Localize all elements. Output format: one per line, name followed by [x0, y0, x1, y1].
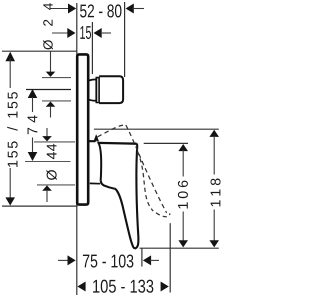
dimension 105-133 arrow left: [77, 282, 85, 292]
dimension text O 44 (rotated): [46, 144, 57, 180]
dimension 52-80 line left: [50, 8, 69, 10]
dimension 75-103 extension right: [141, 248, 143, 266]
handle collar bottom step: [90, 182, 100, 184]
dimension 118 arrow down: [213, 210, 215, 242]
dimension 106 arrow down: [182, 212, 184, 242]
dimension 74 arrow down: [32, 138, 34, 154]
dimension text 118 (rotated): [210, 179, 220, 207]
handle hub front face: [98, 142, 101, 180]
dimension Ø44 arrow down: [42, 136, 52, 141]
dashed lever inner edge: [138, 152, 154, 212]
extension line (106): [144, 142, 188, 144]
dimension Ø44 extension bottom: [37, 184, 75, 186]
dimension 52-80 extension right: [124, 2, 126, 77]
lever axis line: [25, 161, 71, 163]
dimension Ø24 arrow up: [46, 102, 56, 107]
dashed lever tip hook: [156, 213, 170, 217]
dimension Ø24 upper shaft: [50, 52, 52, 73]
bottom-left extension line (155 bottom): [2, 205, 78, 207]
dimension 52-80 arrow left: [68, 4, 76, 14]
diverter stub neck: [89, 79, 96, 100]
dimension 15 extension right: [91, 22, 93, 74]
diverter stub flange: [96, 78, 99, 103]
dimension 155/155 arrow down: [9, 168, 11, 199]
dimension 74 arrow up: [28, 89, 38, 98]
dimension 106 arrow up: [178, 144, 188, 151]
dimension 15 line left: [52, 32, 69, 34]
dimension 15 arrow left: [67, 28, 75, 38]
extension line top right (118): [94, 128, 219, 130]
dimension text 74 (rotated): [28, 115, 38, 134]
dimension text 105 - 133: [93, 280, 153, 293]
dimension text 155 / 155 (rotated): [7, 92, 17, 167]
dimension text 75 - 103: [83, 254, 133, 267]
dimension 75-103 arrow right: [143, 255, 151, 265]
dimension 75-103 line left: [58, 259, 69, 261]
escutcheon plate (side view): [77, 54, 88, 204]
dimension 74 extension top (stub axis): [26, 89, 71, 91]
dimension Ø44 shaft top: [46, 128, 48, 137]
dimension text 106 (rotated): [178, 181, 188, 209]
dashed lever outer edge: [126, 125, 167, 213]
lever grip outline: [114, 144, 138, 249]
dimension 52-80 arrow right: [126, 4, 134, 14]
dimension text O 24 (rotated): [43, 3, 53, 49]
top extension line (155 top): [2, 50, 77, 52]
dashed lever rising edge (open position): [97, 125, 125, 137]
dimension Ø24 extension top: [42, 77, 71, 79]
dimension Ø44 extension top: [34, 141, 75, 143]
dimension 155/155 arrow up: [5, 52, 15, 61]
lever top edge: [98, 142, 136, 145]
diverter stub knob: [99, 76, 123, 103]
dimension text 15: [80, 26, 91, 39]
dimension 105-133 extension right: [169, 223, 171, 292]
dimension text 52 - 80: [80, 4, 121, 17]
dimension Ø44 arrow up: [42, 185, 52, 190]
handle hub bottom: [101, 180, 115, 188]
bottom-right extension line: [140, 247, 219, 249]
dimension 75-103 arrow left: [68, 255, 76, 265]
dimension 118 arrow up: [209, 130, 219, 137]
wall extension line: [76, 3, 78, 295]
dimension Ø24 lower shaft: [50, 106, 52, 118]
dimension 105-133 arrow right: [161, 282, 169, 292]
handle collar top step: [89, 137, 98, 141]
dimension Ø24 extension bottom: [42, 100, 71, 102]
dimension 15 arrow right: [94, 28, 102, 38]
dimension Ø24 arrow down: [46, 72, 56, 77]
